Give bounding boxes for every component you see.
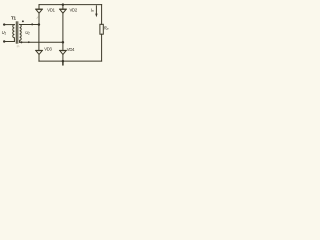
svg-text:VD3: VD3	[44, 47, 52, 52]
svg-text:VD4: VD4	[67, 47, 75, 52]
svg-text:U2: U2	[25, 30, 30, 36]
svg-text:U1: U1	[2, 30, 7, 36]
svg-text:VD1: VD1	[47, 8, 55, 13]
svg-text:T1: T1	[11, 16, 16, 21]
svg-text:VD2: VD2	[70, 7, 78, 12]
svg-text:Rн: Rн	[104, 25, 109, 31]
